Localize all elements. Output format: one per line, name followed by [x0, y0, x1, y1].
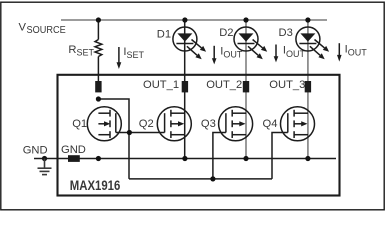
junction dot Q2 source — [182, 156, 187, 161]
junction dot rail-D3 — [305, 17, 310, 22]
transistor Q2 — [157, 107, 191, 141]
wire SET column (VSOURCE to RSET) — [97, 20, 99, 40]
LED D1 — [173, 27, 206, 59]
wire gate riser Q3 — [213, 133, 226, 179]
pin SET (black pad) — [95, 81, 101, 92]
current arrow IOUT (D3) — [338, 43, 340, 55]
svg-text:MAX1916: MAX1916 — [70, 178, 121, 193]
svg-text:Q3: Q3 — [201, 118, 216, 130]
wire RSET to SET pin — [97, 57, 99, 82]
transistor Q4 — [281, 107, 315, 141]
junction dot Q1 source — [96, 156, 101, 161]
svg-text:OUT_1: OUT_1 — [143, 79, 179, 91]
svg-text:OUT_2: OUT_2 — [206, 79, 242, 91]
junction dot gate bus tap Q3 — [210, 176, 215, 181]
svg-text:GND: GND — [61, 144, 86, 156]
pin GND (black pad) — [68, 155, 80, 162]
transistor Q3 — [219, 107, 253, 141]
wire gate riser Q4 — [272, 133, 288, 179]
wire D2 column (rail to GND bus, gray) — [245, 20, 247, 159]
svg-text:SOURCE: SOURCE — [27, 25, 67, 36]
svg-text:GND: GND — [23, 144, 48, 156]
IC U1 MAX1916 box — [58, 75, 340, 196]
LED D2 — [234, 27, 267, 59]
current arrow IOUT (D2) — [275, 45, 277, 57]
ground symbol — [38, 159, 52, 175]
current arrow ISET — [118, 47, 120, 63]
wire Q1 gate lead — [116, 132, 130, 134]
current arrow IOUT (D1) — [213, 46, 215, 59]
junction dot Q3 source — [243, 156, 248, 161]
junction dot rail-RSET — [96, 17, 101, 22]
wire diode-connection Q1 drain to gate — [98, 99, 129, 179]
junction dot Q1 gate node — [127, 130, 132, 135]
svg-text:D2: D2 — [219, 27, 233, 39]
pin OUT_3 (black pad) — [305, 81, 311, 92]
svg-text:OUT_3: OUT_3 — [269, 79, 305, 91]
wire D1 column (rail to GND bus, black) — [184, 20, 186, 159]
transistor Q1 (mirrored MOSFET) — [87, 107, 121, 141]
wire gate bus (lower) — [129, 178, 272, 180]
resistor RSET — [95, 40, 102, 57]
wire V_SOURCE rail — [61, 19, 327, 21]
svg-text:D1: D1 — [157, 28, 171, 40]
svg-text:Q2: Q2 — [139, 118, 154, 130]
svg-text:D3: D3 — [279, 27, 293, 39]
svg-text:Q1: Q1 — [72, 118, 87, 130]
wire D3 column (rail to GND bus, gray) — [307, 20, 309, 159]
pin OUT_2 (black pad) — [243, 81, 249, 92]
svg-text:Q4: Q4 — [263, 118, 278, 130]
junction dot GND — [42, 156, 47, 161]
wire GND source bus — [34, 158, 336, 160]
junction dot SET node — [96, 96, 101, 101]
svg-text:V: V — [19, 21, 27, 33]
LED D3 — [296, 27, 329, 59]
junction dot rail-D1 — [182, 17, 187, 22]
wire gate bus to Q2 — [129, 132, 164, 134]
junction dot Q4 source — [305, 156, 310, 161]
pin OUT_1 (black pad) — [182, 81, 188, 92]
junction dot rail-D2 — [243, 17, 248, 22]
